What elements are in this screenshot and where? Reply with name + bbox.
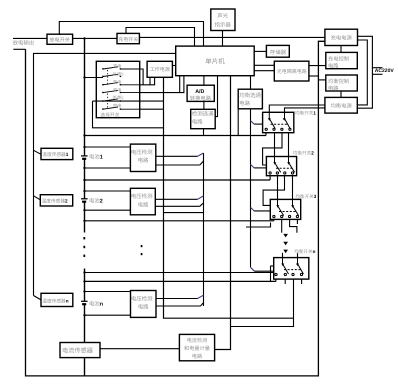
wire 均衡开关2 drop to 均衡开关3 terminal 1 — [277, 176, 279, 200]
switch contact dots — [102, 68, 103, 69]
switch contact row5 关(断) — [103, 99, 118, 101]
switch contact row2 关(断) — [103, 74, 118, 76]
wire 光电隔离电路 to 充电控制电路 — [309, 65, 326, 67]
wire 选择开关 row3 output (放电) to 工作电源 bottom — [140, 77, 155, 85]
svg-text:温度传感器n: 温度传感器n — [42, 298, 68, 303]
wire 均衡开关n left entry vertical — [271, 266, 274, 282]
svg-text:AC220V: AC220V — [375, 68, 395, 74]
wire diagonal jog to 温度传感器1 — [34, 150, 42, 154]
wire 均衡开关n bottom drop4 to metering bus — [231, 279, 294, 326]
wire outer AC bracket — [357, 36, 372, 108]
wire 工作电源 to MCU left — [172, 65, 175, 67]
wire MCU to 光电隔离电路 lower — [254, 70, 274, 72]
svg-text:均衡控制: 均衡控制 — [328, 78, 349, 85]
svg-text:光电隔离电路: 光电隔离电路 — [277, 68, 307, 75]
node 放电输出 output wire — [13, 37, 47, 39]
wire 电压检测电路1 right tap lower with jog — [156, 164, 200, 166]
wire 均衡开关2 bottom drop1 — [269, 176, 271, 180]
wire 电压检测电路2 right tap upper with jog — [155, 198, 197, 200]
wire 电流传感器 to 电流检测和电量计量电路 — [100, 348, 179, 350]
wire gating jog to 均衡开关1 — [251, 121, 255, 125]
battery 电池1 — [81, 155, 88, 157]
svg-text:均衡开关3: 均衡开关3 — [295, 194, 316, 199]
选择开关 internals — [103, 67, 140, 109]
box 电压检测电路1 — [130, 144, 155, 171]
node junction battery bus top — [83, 37, 85, 39]
wire row5 feed riser down to bus y128 — [93, 101, 164, 128]
svg-text:单片机: 单片机 — [205, 57, 225, 65]
svg-text:电流传感器: 电流传感器 — [62, 347, 94, 355]
wire 均衡开关1 drop3 jog to 均衡开关2 left entry — [263, 133, 282, 165]
svg-text:电路: 电路 — [239, 100, 250, 107]
box 电流检测和电量计量电路 — [179, 334, 214, 360]
wire group n bus y281.4 — [85, 280, 276, 282]
wire 电池n plus tap to 电压检测电路n — [85, 291, 131, 293]
svg-text:放电输出: 放电输出 — [13, 40, 35, 47]
svg-text:充电电源: 充电电源 — [331, 34, 353, 41]
wire inner AC bracket — [357, 40, 367, 105]
wire 均衡选通电路 output bus down relay column — [250, 109, 252, 267]
box 均衡开关2 — [266, 157, 296, 176]
svg-text:放电: 放电 — [113, 79, 122, 84]
box 声光指示器 — [211, 9, 235, 31]
box 均衡控制电路 — [326, 75, 358, 91]
wire 电池1 minus tap to 电压检测电路1 — [85, 167, 131, 169]
wire second riser to MCU bottom from bus y92.6 — [179, 76, 181, 93]
svg-text:均衡电源: 均衡电源 — [331, 103, 353, 110]
wire stub bus left of 均衡开关3 — [246, 223, 271, 228]
box 放电开关 — [47, 34, 73, 44]
wire 充电开关 to 充电电源 — [139, 36, 325, 38]
wire row5 common feed through 选择开关 to bus163 — [93, 100, 164, 102]
wire MCU metering bus x230 down to 电流检测和电量计量电路 — [215, 76, 231, 350]
box 工作电源 — [147, 61, 172, 77]
svg-text:电路: 电路 — [328, 85, 339, 92]
wire 均衡开关n bottom stub2 — [284, 279, 286, 284]
wire short segment y212.6 — [164, 212, 204, 214]
wire AC source stub upper — [372, 67, 382, 69]
wire 均衡控制电路 to 均衡电源 — [340, 91, 342, 97]
wire 均衡开关1 drop to 均衡开关2 terminal 1 — [274, 133, 276, 157]
svg-text:充电开关: 充电开关 — [118, 36, 138, 43]
wire diagonal jog to 温度传感器n — [34, 296, 42, 300]
battery symbols — [81, 156, 88, 304]
svg-text:电池1: 电池1 — [89, 154, 103, 161]
wire MCU to 均衡选通电路 — [250, 76, 252, 90]
wire row2 common feed from battery bus to 选择开关 — [85, 77, 104, 79]
wire 均衡开关3 bottom stub2 — [281, 219, 283, 232]
wire 均衡开关3 bottom stub4 — [296, 219, 298, 224]
box 单片机 MCU — [176, 46, 255, 76]
box 光电隔离电路 — [274, 61, 309, 81]
svg-text:充电: 充电 — [113, 87, 122, 92]
svg-text:均衡开关1: 均衡开关1 — [295, 111, 316, 116]
svg-text:放电开关: 放电开关 — [49, 37, 70, 44]
wire 电池2 minus tap to 电压检测电路2 — [85, 209, 131, 211]
wire gating jog to 均衡开关n — [251, 267, 255, 271]
wire 均衡开关n bottom drop1 to bus — [275, 279, 277, 281]
svg-text:均衡开关n: 均衡开关n — [294, 249, 315, 254]
wire 放电开关 to 充电开关 — [73, 37, 117, 39]
box 电压检测电路n — [131, 291, 157, 318]
wire A/D to 检测选通电路 — [203, 101, 205, 109]
svg-text:电压检测: 电压检测 — [131, 193, 153, 200]
svg-text:转换电路: 转换电路 — [190, 95, 212, 102]
box 均衡开关1 — [263, 112, 294, 132]
svg-text:声光: 声光 — [217, 13, 228, 20]
wire 电压检测电路n right tap upper with jog — [156, 298, 198, 300]
wire 光电隔离电路 to right bus318 — [309, 75, 319, 77]
svg-text:工作电源: 工作电源 — [150, 66, 170, 73]
box 均衡开关3 — [270, 199, 300, 219]
svg-text:关(断): 关(断) — [112, 95, 124, 100]
svg-text:关(断): 关(断) — [112, 71, 124, 76]
svg-text:温度传感器1: 温度传感器1 — [42, 152, 68, 157]
svg-text:放电: 放电 — [113, 103, 122, 108]
wire bus318 to 均衡控制电路 — [318, 79, 325, 81]
wire detection bus x204 along battery taps — [203, 153, 205, 306]
wire AC source stub lower — [372, 73, 382, 75]
svg-text:电路: 电路 — [138, 201, 149, 208]
svg-text:电路: 电路 — [138, 304, 149, 311]
box 均衡开关n — [274, 258, 309, 280]
node V-column ellipsis dots — [141, 245, 143, 255]
box 温度传感器2 — [40, 195, 72, 206]
svg-text:和电量计量: 和电量计量 — [184, 345, 210, 352]
wire 均衡开关1 top terminal 2 to 均衡电源 — [285, 108, 326, 112]
wire 均衡开关2 drop3 jog to 均衡开关3 left entry — [263, 176, 284, 206]
battery 电池n — [81, 300, 88, 302]
svg-text:选择开关: 选择开关 — [100, 112, 119, 119]
box 温度传感器1 — [41, 148, 73, 159]
box 充电控制电路 — [326, 52, 358, 68]
relay internals 均衡开关1 — [265, 112, 291, 130]
wire 电压检测电路2 right tap lower with jog — [155, 205, 200, 207]
wire MCU to 存储器 — [254, 50, 266, 52]
wire 均衡开关n bottom stub3 — [301, 279, 303, 284]
svg-text:均衡开关2: 均衡开关2 — [293, 150, 314, 155]
wire 均衡开关3 bottom-left drop to bus y220.8 — [273, 219, 275, 220]
switch contact row3 放电 — [103, 83, 140, 85]
box 充电开关 — [117, 33, 139, 43]
svg-text:温度传感器2: 温度传感器2 — [42, 199, 68, 204]
switch contact row1 充电 — [103, 67, 140, 69]
svg-text:电路: 电路 — [192, 118, 203, 125]
node battery bus ellipsis dots — [83, 237, 85, 257]
wire 均衡开关1 drop to 均衡开关2 terminal 2 — [288, 133, 290, 157]
svg-text:充电: 充电 — [113, 64, 122, 69]
wire 均衡开关1 top terminal 1 to 均衡电源 — [269, 105, 325, 112]
wire 电池n minus tap to 电压检测电路n — [85, 314, 131, 316]
wire left bus to MCU left edge — [34, 53, 176, 295]
svg-text:均衡选通: 均衡选通 — [239, 92, 261, 99]
wire gating jog to 均衡开关3 — [251, 207, 255, 211]
box A/D 转换电路 — [187, 85, 214, 101]
wire 均衡开关1 bottom-left drop to bus y135.5 — [265, 133, 267, 136]
box 存储器 — [266, 45, 289, 57]
svg-text:电压检测: 电压检测 — [131, 149, 153, 156]
svg-text:电压检测: 电压检测 — [131, 295, 153, 302]
wire group1 bus y135.5 battery bus to 均衡开关1 — [85, 135, 267, 137]
svg-text:电路: 电路 — [138, 157, 149, 164]
relay internals 均衡开关3 — [273, 199, 299, 217]
switch linkage dotted group2 — [107, 94, 109, 108]
switch contact row4 充电 — [103, 90, 140, 92]
node relay ellipsis triangles — [283, 234, 288, 253]
wire diagonal jog to 温度传感器2 — [34, 196, 41, 200]
box 检测选通电路 — [191, 109, 216, 128]
box 均衡电源 — [325, 97, 357, 113]
wire 充电电源 to 充电控制电路 — [340, 46, 342, 53]
wire 均衡开关3 bottom stub3 jog — [290, 219, 297, 232]
wire gating jog to 均衡开关2 — [251, 164, 255, 168]
battery 电池2 — [81, 198, 88, 200]
box 电压检测电路2 — [130, 188, 155, 215]
svg-text:电池2: 电池2 — [89, 197, 103, 204]
BOXES — [40, 9, 357, 361]
box 均衡选通电路 — [238, 89, 262, 109]
box 充电电源 — [325, 29, 358, 45]
svg-text:指示器: 指示器 — [215, 22, 232, 29]
wire group3 bus y220.8 — [85, 220, 274, 222]
wire 电压检测电路1 right tap upper with jog — [156, 155, 198, 157]
wire bus163 from 工作电源 bottom down and right to relay n drop — [164, 77, 294, 318]
wire 电压检测电路n right tap lower with jog — [156, 305, 201, 307]
wire discharge loop: left border, bottom border, right riser to 充电电源 — [26, 41, 326, 376]
svg-text:检测选通: 检测选通 — [192, 111, 214, 118]
wire battery bus (main stack bus) — [84, 38, 86, 155]
wire MCU to A/D converter — [203, 76, 205, 86]
wire 均衡选通电路 left corner drop to bus y135.5 — [237, 109, 239, 136]
svg-text:电路: 电路 — [192, 353, 203, 360]
wire 均衡开关n left feed from battery bus — [85, 272, 274, 274]
box 选择开关 — [96, 61, 139, 117]
wire 电池1 plus tap to 电压检测电路1 — [85, 146, 131, 148]
svg-text:充电控制: 充电控制 — [328, 56, 349, 63]
relay internals 均衡开关2 — [269, 157, 295, 175]
wire 均衡开关2 drop to 均衡开关3 terminal 2 — [292, 176, 294, 200]
svg-text:电流检测: 电流检测 — [187, 337, 208, 344]
wire rail B from 充电开关 top to MCU top — [126, 28, 195, 47]
box 电流传感器 — [60, 343, 100, 358]
svg-text:电池n: 电池n — [89, 300, 103, 307]
wire 检测选通电路 bottom to bus y135.5 — [203, 129, 205, 136]
box 温度传感器n — [41, 293, 73, 306]
relay internals 均衡开关n — [275, 258, 304, 276]
wire 工作电源 bottom left leg — [149, 77, 151, 85]
wire rail A from 放电开关 top to MCU top — [59, 22, 203, 47]
wire MCU to 检测选通电路 right side — [215, 76, 217, 117]
switch contact row6 放电 — [103, 107, 140, 109]
switch linkage dotted group1 — [107, 70, 109, 84]
wire 均衡开关n top terminal feeds — [282, 253, 284, 258]
wire 选择开关 row4 output (充电) riser to MCU bottom — [140, 76, 184, 93]
wire 选择开关 row1 output (充电) down to row3 level — [140, 69, 143, 85]
svg-text:电路: 电路 — [328, 63, 339, 70]
wire 声光指示器 to MCU — [222, 31, 224, 47]
wire MCU to 光电隔离电路 upper — [254, 64, 274, 66]
wire output stub below 放电输出 label — [13, 48, 25, 50]
wire 电池2 plus tap to 电压检测电路2 — [85, 190, 131, 192]
wire group2 bus y180 to 均衡开关2 — [85, 179, 271, 181]
svg-text:A/D: A/D — [195, 89, 204, 95]
wire 选择开关 row6 output (放电) to bus163 — [140, 108, 164, 110]
svg-text:存储器: 存储器 — [270, 49, 287, 56]
